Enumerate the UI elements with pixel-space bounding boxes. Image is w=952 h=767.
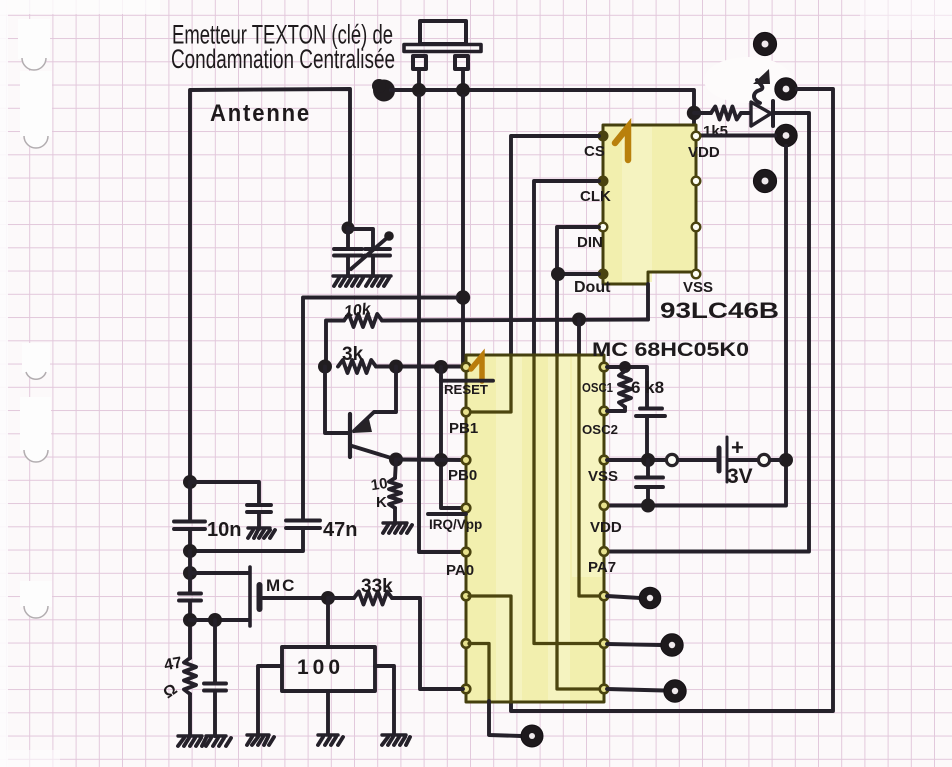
- MCU pin q6: [600, 592, 609, 601]
- wire button leg to RESET: [461, 96, 465, 364]
- ground cap: [206, 736, 231, 746]
- connector ring 1: [666, 454, 677, 465]
- ground 10K: [383, 523, 412, 533]
- MCU pin labels: [429, 380, 622, 579]
- MCU pin IRQ: [462, 504, 471, 513]
- pin DIN: [599, 223, 608, 232]
- wire top rail to VDD: [391, 90, 694, 136]
- MCU pin OSC1: [600, 363, 609, 372]
- wire emitter to PB0: [396, 458, 463, 462]
- svg-text:VSS: VSS: [588, 468, 618, 485]
- svg-text:PB1: PB1: [449, 420, 478, 437]
- pad C: [775, 124, 797, 146]
- svg-text:47: 47: [163, 654, 184, 674]
- capacitor osc: [636, 409, 665, 417]
- wire VSS to 10k rail: [646, 284, 650, 320]
- wire pin q8 to pad H: [607, 689, 664, 691]
- wire pin q6 to pad F: [607, 596, 640, 598]
- wire DIN down: [557, 227, 599, 355]
- MCU pin p8: [462, 685, 471, 694]
- junction mic top: [183, 566, 197, 580]
- EEPROM U2 93LC46B body: [603, 125, 696, 284]
- junction 3k left: [318, 360, 332, 374]
- resistor 33k: [354, 592, 392, 605]
- svg-text:K: K: [376, 494, 387, 511]
- svg-text:PA0: PA0: [446, 562, 474, 579]
- LED D1: [751, 69, 773, 126]
- MCU pin PA7: [600, 547, 609, 556]
- junction LC node: [342, 222, 355, 235]
- svg-text:3V: 3V: [727, 465, 753, 488]
- svg-text:PA7: PA7: [588, 559, 616, 576]
- wire button leg to PA0: [419, 96, 462, 552]
- wire mic out: [263, 596, 328, 600]
- junction 10n bottom: [183, 544, 197, 558]
- svg-text:PB0: PB0: [448, 467, 477, 484]
- svg-text:CS: CS: [584, 143, 605, 160]
- wire OSC1 row: [607, 367, 647, 408]
- svg-text:93LC46B: 93LC46B: [660, 298, 779, 323]
- capacitor fixed LC: [346, 228, 350, 249]
- svg-text:DIN: DIN: [577, 234, 603, 251]
- junction battery node: [779, 453, 793, 467]
- MCU pin p6: [462, 592, 471, 601]
- MCU pin OSC2: [600, 407, 609, 416]
- svg-text:Dout: Dout: [574, 279, 611, 296]
- junction mic bottom: [183, 613, 197, 627]
- svg-text:CLK: CLK: [580, 188, 611, 205]
- junction cap branch: [208, 613, 222, 627]
- svg-text:MC 68HC05K0: MC 68HC05K0: [592, 340, 749, 361]
- wire base to 3k: [325, 367, 348, 434]
- junction 47n/RESET: [456, 290, 470, 304]
- svg-text:MC: MC: [266, 576, 296, 595]
- ground 47ohm: [178, 736, 206, 746]
- svg-text:10k: 10k: [343, 301, 373, 321]
- resistor 3k: [338, 360, 376, 373]
- wire CS to PB1: [511, 136, 599, 355]
- wire mic top: [190, 571, 248, 575]
- svg-text:Antenne: Antenne: [210, 100, 311, 127]
- wire DOUT: [557, 272, 599, 276]
- title text: [171, 20, 395, 75]
- junction DIN/DOUT: [551, 267, 565, 281]
- pin 1 CS: [599, 132, 608, 141]
- svg-text:VDD: VDD: [688, 144, 720, 161]
- wire LED to PA7: [604, 113, 809, 552]
- svg-text:33k: 33k: [361, 576, 393, 597]
- junction IRQ branch: [434, 360, 448, 374]
- branch small cap to ground: [190, 482, 259, 505]
- svg-text:Condamnation Centralisée: Condamnation Centralisée: [171, 44, 395, 74]
- resistor 10K pulldown: [395, 460, 396, 479]
- MCU pin1 orange: [471, 356, 482, 381]
- capacitor trimmer: [348, 229, 373, 249]
- MCU pin q8: [600, 685, 609, 694]
- pad B: [775, 78, 797, 100]
- pin NC2: [692, 223, 701, 232]
- pad D: [753, 169, 776, 192]
- wire VDD to pad C: [697, 134, 775, 138]
- svg-text:10n: 10n: [207, 519, 241, 541]
- capacitor series mic: [188, 551, 192, 592]
- resistor 6k8: [619, 371, 631, 407]
- pad E bottom: [521, 725, 543, 747]
- junction collector: [389, 360, 403, 374]
- ground 100 right: [382, 735, 410, 745]
- svg-text:3k: 3k: [342, 344, 364, 365]
- junction 1k5 node: [687, 106, 701, 120]
- junction PB0/IRQ: [434, 453, 448, 467]
- battery 3V: [719, 437, 727, 482]
- resistor 10k: [326, 321, 344, 367]
- pad A: [753, 32, 776, 55]
- svg-text:IRQ/Vpp: IRQ/Vpp: [429, 517, 482, 532]
- connector ring 2: [758, 454, 769, 465]
- junction emitter: [389, 453, 403, 467]
- svg-text:OSC2: OSC2: [582, 422, 618, 437]
- wire CLK down: [534, 181, 599, 355]
- MCU pin p7: [462, 639, 471, 648]
- svg-text:+: +: [731, 435, 744, 460]
- MCU pin PA0: [462, 548, 471, 557]
- pin VDD: [692, 132, 701, 141]
- pad H: [664, 680, 686, 702]
- wire pad B loop to MCU pin via bottom: [511, 89, 833, 711]
- MCU pin q7: [600, 639, 609, 648]
- capacitor electrolytic: [213, 620, 217, 683]
- amplifier block 100: [282, 647, 375, 691]
- antenna loop: [190, 89, 350, 482]
- scan white corners: [0, 0, 160, 14]
- pad F: [639, 587, 661, 609]
- ground 100 left: [247, 735, 274, 745]
- transistor Q1: [350, 367, 396, 460]
- pad G: [661, 634, 683, 656]
- pin VSS: [692, 270, 701, 279]
- junction antenna bottom: [183, 475, 197, 489]
- svg-text:VDD: VDD: [590, 519, 622, 536]
- punched holes left margin: [0, 0, 52, 767]
- wire MCU pin p6 loop: [469, 596, 511, 701]
- svg-text:100: 100: [297, 656, 344, 679]
- MCU U1 MC68HC05K0 body (fill): [466, 355, 604, 702]
- MCU pin RESET: [462, 363, 471, 372]
- resistor 1k5: [694, 111, 711, 115]
- wire pad C down to battery node: [604, 146, 786, 506]
- pin DOUT: [599, 270, 608, 279]
- junction VDD row: [641, 499, 655, 513]
- capacitor 47n: [286, 521, 320, 529]
- junction right leg: [456, 83, 470, 97]
- solder blob node: [372, 79, 395, 102]
- junction left leg: [412, 83, 426, 97]
- svg-text:47n: 47n: [323, 519, 357, 541]
- junction osc cap: [641, 453, 655, 467]
- svg-text:6 k8: 6 k8: [631, 378, 664, 397]
- svg-text:VSS: VSS: [683, 279, 713, 296]
- wire pin q7 to pad G: [607, 644, 661, 645]
- svg-text:RESET: RESET: [444, 383, 488, 397]
- wire VSS row: [607, 458, 666, 462]
- wire 47n to reset row: [303, 298, 457, 521]
- wire IRQ tie: [441, 367, 463, 508]
- junction mic out: [321, 591, 335, 605]
- wire mic bottom: [190, 618, 248, 622]
- capacitor decoupling: [646, 460, 650, 477]
- junction 6k8 top: [619, 361, 631, 373]
- svg-text:OSC1: OSC1: [582, 380, 613, 395]
- capacitor 10n: [188, 482, 192, 521]
- MCU pin PB0: [462, 456, 471, 465]
- MCU U1 body outline: [466, 355, 604, 702]
- push button S1: [404, 21, 481, 90]
- MCU pin VSS: [600, 456, 609, 465]
- MCU pin PB1: [462, 408, 471, 417]
- chip labels: [574, 143, 720, 296]
- MCU pin VDD: [600, 501, 609, 510]
- junction x579 node: [572, 313, 586, 327]
- ground LC: [333, 276, 391, 286]
- microphone MC: [250, 567, 260, 626]
- resistor 47ohm: [184, 658, 196, 694]
- ground small cap: [248, 528, 275, 538]
- pin CLK: [599, 177, 608, 186]
- svg-text:10: 10: [370, 475, 389, 494]
- ground 100 mid: [318, 735, 343, 745]
- pin NC1: [692, 177, 701, 186]
- pin number 1 orange: [615, 127, 628, 160]
- wire MCU pin p7 to pad: [469, 644, 489, 702]
